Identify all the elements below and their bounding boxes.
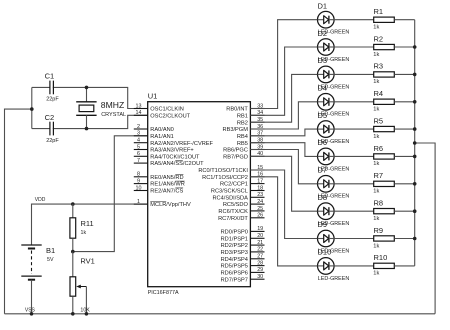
svg-text:RC6/TX/CK: RC6/TX/CK bbox=[218, 209, 248, 215]
svg-text:C1: C1 bbox=[45, 72, 55, 81]
resistor R10 1k bbox=[373, 253, 394, 277]
svg-text:R9: R9 bbox=[374, 226, 384, 235]
resistor R5 1k bbox=[373, 116, 394, 139]
svg-text:D9: D9 bbox=[318, 220, 328, 229]
pin 25 RC6/TX/CK bbox=[218, 206, 264, 215]
wire pin to D1 bbox=[250, 20, 317, 109]
svg-text:RD2/PSP2: RD2/PSP2 bbox=[221, 243, 248, 249]
pin 37 RB4 bbox=[237, 131, 265, 140]
svg-text:1: 1 bbox=[137, 199, 140, 205]
node RV1 wiper to rail bbox=[85, 312, 89, 316]
svg-text:R10: R10 bbox=[374, 253, 388, 262]
svg-text:1k: 1k bbox=[373, 271, 379, 277]
svg-text:20: 20 bbox=[257, 233, 263, 239]
svg-text:OSC1/CLKIN: OSC1/CLKIN bbox=[150, 107, 184, 113]
pin 39 RB6/PGC bbox=[223, 144, 264, 153]
wire divider junction to RA1 pin 3 bbox=[73, 136, 148, 252]
svg-text:PIC16F877A: PIC16F877A bbox=[148, 290, 179, 296]
pin 7 RA5/AN4/SS/C2OUT bbox=[134, 158, 204, 167]
svg-text:OSC2/CLKOUT: OSC2/CLKOUT bbox=[150, 113, 190, 119]
wire D3 to R3 bbox=[334, 73, 374, 75]
svg-text:VDD: VDD bbox=[35, 197, 46, 203]
svg-text:RD5/PSP5: RD5/PSP5 bbox=[221, 264, 248, 270]
resistor R6 1k bbox=[373, 144, 394, 167]
svg-text:RC4/SDI/SDA: RC4/SDI/SDA bbox=[212, 195, 248, 201]
wire D10 to R10 bbox=[334, 265, 374, 267]
resistor R8 1k bbox=[373, 199, 394, 223]
svg-text:1k: 1k bbox=[373, 161, 379, 167]
wire R7 to bus bbox=[394, 183, 414, 185]
svg-text:RA4/T0CKI/C1OUT: RA4/T0CKI/C1OUT bbox=[150, 154, 200, 160]
svg-text:8: 8 bbox=[137, 172, 140, 178]
svg-text:RB6/PGC: RB6/PGC bbox=[223, 148, 248, 154]
svg-text:RB5: RB5 bbox=[237, 141, 248, 147]
pin 1 MCLR/Vpp/THV bbox=[134, 199, 191, 208]
node bus junction row 5 bbox=[413, 127, 417, 131]
resistor R7 1k bbox=[373, 171, 394, 195]
pin 10 RE2/AN7/CS bbox=[134, 185, 184, 194]
svg-text:D5: D5 bbox=[318, 111, 328, 120]
svg-text:D3: D3 bbox=[318, 56, 328, 65]
svg-text:RA3/AN3/VREF+: RA3/AN3/VREF+ bbox=[150, 148, 194, 154]
wire pin to D9 bbox=[250, 170, 317, 239]
svg-text:D2: D2 bbox=[318, 29, 328, 38]
svg-text:2: 2 bbox=[137, 124, 140, 130]
pin 40 RB7/PGD bbox=[223, 151, 264, 160]
svg-text:1k: 1k bbox=[373, 52, 379, 58]
svg-text:R5: R5 bbox=[374, 116, 384, 125]
svg-text:D10: D10 bbox=[318, 248, 332, 257]
wire capacitor common vertical bbox=[31, 87, 33, 128]
resistor R3 1k bbox=[373, 62, 394, 86]
svg-text:D6: D6 bbox=[318, 138, 328, 147]
svg-text:RB2: RB2 bbox=[237, 120, 248, 126]
pin 29 RD6/PSP6 bbox=[221, 267, 265, 276]
node R11 top junction bbox=[71, 202, 75, 206]
wire pin to D3 bbox=[250, 74, 317, 122]
svg-text:24: 24 bbox=[257, 199, 263, 205]
svg-text:26: 26 bbox=[257, 213, 263, 219]
svg-text:22pF: 22pF bbox=[46, 97, 59, 103]
LED D6 LED-GREEN bbox=[318, 138, 350, 172]
svg-text:D1: D1 bbox=[318, 1, 328, 10]
svg-text:1k: 1k bbox=[373, 79, 379, 85]
svg-text:R6: R6 bbox=[374, 144, 384, 153]
svg-text:R11: R11 bbox=[81, 219, 94, 228]
svg-text:R7: R7 bbox=[374, 171, 384, 180]
wire D6 to R6 bbox=[334, 155, 374, 157]
svg-text:7: 7 bbox=[137, 158, 140, 164]
node bus junction row 8 bbox=[413, 209, 417, 213]
svg-text:6: 6 bbox=[137, 151, 140, 157]
svg-text:1k: 1k bbox=[373, 243, 379, 249]
svg-text:RD3/PSP3: RD3/PSP3 bbox=[221, 250, 248, 256]
wire R2 to bus bbox=[394, 46, 414, 48]
node bus return tap bbox=[413, 141, 417, 145]
svg-text:1k: 1k bbox=[373, 134, 379, 140]
svg-text:1k: 1k bbox=[373, 25, 379, 31]
svg-text:19: 19 bbox=[257, 226, 263, 232]
svg-text:3: 3 bbox=[137, 131, 140, 137]
wire D9 to R9 bbox=[334, 238, 374, 240]
svg-text:29: 29 bbox=[257, 267, 263, 273]
pin 19 RD0/PSP0 bbox=[221, 226, 265, 235]
wire R10 to bus bbox=[394, 265, 414, 267]
wire R8 to bus bbox=[394, 210, 414, 212]
wire D7 to R7 bbox=[334, 183, 374, 185]
svg-text:D4: D4 bbox=[318, 84, 328, 93]
crystal 8MHZ bbox=[76, 87, 126, 128]
capacitor C1 bbox=[45, 72, 60, 103]
svg-text:RC1/T1OSI/CCP2: RC1/T1OSI/CCP2 bbox=[202, 175, 248, 181]
svg-text:RB1: RB1 bbox=[237, 113, 248, 119]
svg-text:30: 30 bbox=[257, 274, 263, 280]
node bus junction row 2 bbox=[413, 45, 417, 49]
wire R1 to bus bbox=[394, 19, 414, 21]
wire D4 to R4 bbox=[334, 101, 374, 103]
wire D2 to R2 bbox=[334, 46, 374, 48]
pin 36 RB3/PGM bbox=[223, 124, 265, 133]
svg-text:23: 23 bbox=[257, 192, 263, 198]
svg-text:RE1/AN6/WR: RE1/AN6/WR bbox=[150, 182, 184, 188]
pin 30 RD7/PSP7 bbox=[221, 274, 265, 283]
LED D8 LED-GREEN bbox=[318, 193, 350, 227]
wire VSS bottom rail bbox=[5, 313, 436, 315]
svg-text:RD1/PSP1: RD1/PSP1 bbox=[221, 236, 248, 242]
svg-text:13: 13 bbox=[136, 103, 142, 109]
pin 21 RD2/PSP2 bbox=[221, 240, 265, 249]
svg-text:R8: R8 bbox=[374, 199, 384, 208]
svg-text:RD4/PSP4: RD4/PSP4 bbox=[221, 257, 248, 263]
svg-text:RA1/AN1: RA1/AN1 bbox=[150, 134, 174, 140]
svg-text:1k: 1k bbox=[373, 107, 379, 113]
node bus junction row 6 bbox=[413, 155, 417, 159]
pin 16 RC1/T1OSI/CCP2 bbox=[202, 172, 264, 181]
wire ground tap to left rail bbox=[5, 109, 32, 314]
battery B1 5V bbox=[21, 245, 55, 314]
svg-text:22: 22 bbox=[257, 247, 263, 253]
wire pin to D8 bbox=[250, 156, 317, 211]
wire R4 to bus bbox=[394, 101, 414, 103]
wire OSC2 net: C2 row to chip pin 14 bbox=[32, 115, 148, 128]
LED D3 LED-GREEN bbox=[318, 56, 350, 90]
wire LED return bus vertical bbox=[414, 20, 416, 266]
pin 6 RA4/T0CKI/C1OUT bbox=[134, 151, 200, 160]
resistor R1 1k bbox=[373, 7, 394, 31]
pin 22 RD3/PSP3 bbox=[221, 247, 265, 256]
svg-text:25: 25 bbox=[257, 206, 263, 212]
pin 28 RD5/PSP5 bbox=[221, 260, 265, 269]
pin 26 RC7/RX/DT bbox=[218, 213, 264, 222]
svg-text:RC3/SCK/SCL: RC3/SCK/SCL bbox=[211, 189, 248, 195]
LED D5 LED-GREEN bbox=[318, 111, 350, 145]
svg-text:RE0/AN5/RD: RE0/AN5/RD bbox=[150, 175, 183, 181]
svg-text:RC7/RX/DT: RC7/RX/DT bbox=[218, 216, 248, 222]
LED D1 LED-GREEN bbox=[318, 1, 350, 35]
pin 24 RC5/SDO bbox=[223, 199, 265, 208]
pin 13 OSC1/CLKIN bbox=[134, 103, 184, 112]
pin 8 RE0/AN5/RD bbox=[134, 172, 184, 181]
pin 2 RA0/AN0 bbox=[134, 124, 174, 133]
pin 27 RD4/PSP4 bbox=[221, 254, 265, 263]
svg-text:1k: 1k bbox=[373, 189, 379, 195]
wire pin to D5 bbox=[250, 129, 317, 136]
svg-text:D8: D8 bbox=[318, 193, 328, 202]
svg-text:RD7/PSP7: RD7/PSP7 bbox=[221, 277, 248, 283]
wire pin to D7 bbox=[250, 150, 317, 184]
microcontroller U1 PIC16F877A bbox=[148, 92, 251, 296]
svg-text:RC2/CCP1: RC2/CCP1 bbox=[220, 182, 248, 188]
svg-text:RA0/AN0: RA0/AN0 bbox=[150, 127, 174, 133]
resistor R2 1k bbox=[373, 34, 394, 58]
svg-text:14: 14 bbox=[136, 110, 142, 116]
pin 4 RA2/AN2/VREF-/CVREF bbox=[134, 138, 214, 147]
resistor R9 1k bbox=[373, 226, 394, 250]
svg-text:R4: R4 bbox=[374, 89, 384, 98]
svg-text:28: 28 bbox=[257, 260, 263, 266]
svg-text:22pF: 22pF bbox=[46, 138, 59, 144]
svg-text:B1: B1 bbox=[46, 246, 55, 255]
svg-text:LED-GREEN: LED-GREEN bbox=[318, 276, 350, 282]
wire pin to D6 bbox=[250, 143, 317, 157]
resistor R11 1k bbox=[70, 204, 94, 252]
svg-text:MCLR/Vpp/THV: MCLR/Vpp/THV bbox=[150, 202, 191, 208]
node RV1 bottom to rail bbox=[71, 312, 75, 316]
resistor R4 1k bbox=[373, 89, 394, 113]
svg-text:10: 10 bbox=[136, 185, 142, 191]
svg-text:RB7/PGD: RB7/PGD bbox=[223, 154, 248, 160]
wire OSC1 net: C1 row to chip pin 13 bbox=[32, 87, 148, 108]
wire pin to D2 bbox=[250, 47, 317, 115]
svg-text:RB3/PGM: RB3/PGM bbox=[223, 127, 249, 133]
pin 20 RD1/PSP1 bbox=[221, 233, 265, 242]
svg-text:RE2/AN7/CS: RE2/AN7/CS bbox=[150, 189, 183, 195]
LED D2 LED-GREEN bbox=[318, 29, 350, 63]
node battery to rail bbox=[30, 312, 34, 316]
svg-text:C2: C2 bbox=[45, 113, 55, 122]
LED D4 LED-GREEN bbox=[318, 84, 350, 118]
svg-text:RV1: RV1 bbox=[80, 256, 94, 265]
pin 18 RC3/SCK/SCL bbox=[211, 185, 265, 194]
pin 17 RC2/CCP1 bbox=[220, 178, 265, 187]
node bus junction row 4 bbox=[413, 100, 417, 104]
svg-text:RA5/AN4/SS/C2OUT: RA5/AN4/SS/C2OUT bbox=[150, 161, 204, 167]
svg-text:1k: 1k bbox=[373, 216, 379, 222]
svg-text:27: 27 bbox=[257, 254, 263, 260]
svg-text:1k: 1k bbox=[81, 230, 87, 236]
LED D7 LED-GREEN bbox=[318, 166, 350, 200]
pin 14 OSC2/CLKOUT bbox=[134, 110, 191, 119]
svg-text:21: 21 bbox=[257, 240, 263, 246]
svg-text:RD0/PSP0: RD0/PSP0 bbox=[221, 230, 248, 236]
svg-text:18: 18 bbox=[257, 185, 263, 191]
svg-text:RA2/AN2/VREF-/CVREF: RA2/AN2/VREF-/CVREF bbox=[150, 141, 213, 147]
node capacitor common / ground tap bbox=[30, 107, 34, 111]
svg-text:RB0/INT: RB0/INT bbox=[226, 107, 248, 113]
node crystal bottom / C2 junction bbox=[85, 127, 89, 131]
svg-text:U1: U1 bbox=[148, 92, 158, 101]
node bus junction row 3 bbox=[413, 73, 417, 77]
wire pin to D4 bbox=[250, 102, 317, 129]
pin 38 RB5 bbox=[237, 138, 265, 147]
wire D1 to R1 bbox=[334, 19, 374, 21]
wire VDD rail to MCLR pin 1 bbox=[32, 204, 148, 245]
svg-text:R1: R1 bbox=[374, 7, 384, 16]
svg-text:RC0/T1OSO/T1CKI: RC0/T1OSO/T1CKI bbox=[198, 168, 248, 174]
pin 5 RA3/AN3/VREF+ bbox=[134, 144, 195, 153]
pin 35 RB2 bbox=[237, 117, 265, 126]
node divider junction bbox=[71, 250, 75, 254]
node crystal top / C1 junction bbox=[85, 86, 89, 90]
pin 34 RB1 bbox=[237, 110, 265, 119]
LED D10 LED-GREEN bbox=[318, 248, 350, 282]
wire bus return to VSS rail bbox=[415, 143, 435, 314]
wire R9 to bus bbox=[394, 238, 414, 240]
node bus junction row 9 bbox=[413, 237, 417, 241]
svg-text:RD6/PSP6: RD6/PSP6 bbox=[221, 271, 248, 277]
LED D9 LED-GREEN bbox=[318, 220, 350, 254]
svg-text:17: 17 bbox=[257, 178, 263, 184]
svg-text:RC5/SDO: RC5/SDO bbox=[223, 202, 249, 208]
svg-text:5: 5 bbox=[137, 144, 140, 150]
wire R6 to bus bbox=[394, 155, 414, 157]
svg-text:5V: 5V bbox=[47, 257, 54, 263]
svg-text:8MHZ: 8MHZ bbox=[101, 100, 124, 110]
svg-text:RB4: RB4 bbox=[237, 134, 248, 140]
wire pin to D10 bbox=[250, 177, 317, 266]
svg-text:D7: D7 bbox=[318, 166, 328, 175]
pin 23 RC4/SDI/SDA bbox=[212, 192, 264, 201]
pin 3 RA1/AN1 bbox=[134, 131, 174, 140]
svg-text:CRYSTAL: CRYSTAL bbox=[101, 112, 126, 118]
svg-text:9: 9 bbox=[137, 178, 140, 184]
potentiometer RV1 10K bbox=[70, 252, 95, 314]
wire R5 to bus bbox=[394, 128, 414, 130]
wire D5 to R5 bbox=[334, 128, 374, 130]
pin 33 RB0/INT bbox=[226, 103, 264, 112]
pin 15 RC0/T1OSO/T1CKI bbox=[198, 165, 264, 174]
wire D8 to R8 bbox=[334, 210, 374, 212]
wire R3 to bus bbox=[394, 73, 414, 75]
pin 9 RE1/AN6/WR bbox=[134, 178, 185, 187]
svg-text:4: 4 bbox=[137, 138, 140, 144]
capacitor C2 bbox=[45, 113, 60, 144]
svg-text:R2: R2 bbox=[374, 34, 384, 43]
node bus junction row 7 bbox=[413, 182, 417, 186]
svg-text:R3: R3 bbox=[374, 62, 384, 71]
